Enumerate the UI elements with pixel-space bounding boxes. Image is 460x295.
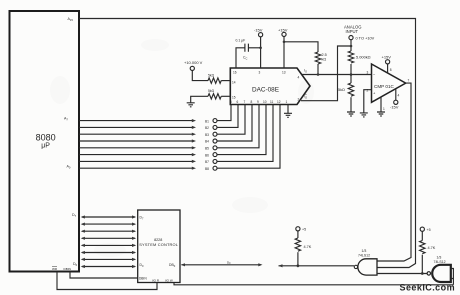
svg-text:WR: WR [52, 267, 58, 271]
svg-text:5.000kΩ: 5.000kΩ [356, 55, 371, 60]
svg-text:6: 6 [237, 100, 239, 104]
node B4 terminal and wire to DAC pin 8 [205, 105, 252, 144]
svg-text:4: 4 [398, 94, 400, 98]
svg-text:74LS12: 74LS12 [358, 254, 370, 258]
svg-text:1: 1 [286, 100, 288, 104]
svg-text:DBIN: DBIN [139, 277, 147, 281]
svg-text:+5: +5 [427, 228, 431, 232]
svg-text:5: 5 [230, 100, 232, 104]
svg-text:DAC-08E: DAC-08E [252, 86, 279, 93]
svg-text:B2: B2 [205, 126, 209, 130]
svg-text:7: 7 [244, 100, 246, 104]
pin label WR (8080 bottom) [52, 267, 58, 271]
svg-text:3: 3 [367, 71, 369, 75]
junction (cap node) [259, 47, 262, 50]
svg-text:8080: 8080 [36, 133, 56, 143]
microprocessor U1 8080 box [10, 11, 80, 272]
wire +5 to R7 [421, 231, 423, 240]
svg-text:2.5: 2.5 [322, 53, 327, 57]
comparator U3 CMP-01C [367, 64, 410, 111]
resistor R6 4.7K [295, 238, 312, 251]
svg-text:SYSTEM CONTROL: SYSTEM CONTROL [139, 242, 179, 247]
terminal -15V (comparator) [390, 100, 399, 109]
svg-text:74LS12: 74LS12 [434, 260, 446, 264]
svg-text:8: 8 [390, 68, 392, 72]
wire DB0 segment from 8228 with arrows [181, 261, 263, 267]
terminal +15V [278, 28, 288, 37]
svg-text:-15V: -15V [254, 28, 263, 33]
wire R3 to IO line [317, 64, 319, 75]
svg-text:2: 2 [367, 89, 369, 93]
ground (Vref-) [187, 103, 195, 107]
svg-text:B8: B8 [205, 167, 209, 171]
svg-text:CMP 01C: CMP 01C [374, 84, 395, 89]
wire D0 segment to NAND1 output [278, 264, 354, 267]
terminal +15V (comparator) [382, 55, 392, 64]
wire NAND1 input3 to NAND2 output [377, 273, 427, 275]
system controller U4 8228 box [138, 210, 180, 283]
svg-text:4.7K: 4.7K [304, 245, 312, 249]
svg-text:2: 2 [298, 98, 300, 102]
wire NAND2 inputs [451, 269, 454, 285]
svg-text:5kΩ: 5kΩ [338, 88, 345, 92]
resistor R3 2.5k [315, 52, 326, 64]
gate U6 NAND 1/3 74LS12 (mirrored, bold) [427, 256, 451, 283]
junction (R6 pullup node) [297, 264, 300, 267]
wire A15 from 8080 to NAND input [79, 19, 415, 268]
ground (DAC pin 1) [284, 113, 292, 117]
node B3 terminal and wire to DAC pin 7 [205, 105, 245, 137]
junction (+15V node) [283, 41, 286, 44]
wire R2 to DAC pin 15 [221, 95, 230, 97]
svg-text:4.7K: 4.7K [428, 246, 436, 250]
resistor R7 4.7K [420, 241, 436, 254]
wire pin 8 [387, 64, 389, 74]
svg-text:kΩ: kΩ [322, 58, 327, 62]
svg-text:7: 7 [408, 79, 410, 83]
wire IO from DAC pin 4 to comparator [302, 69, 372, 75]
wire DBIN from 8080 to 8228 [70, 272, 138, 278]
wire ground to R2 [191, 96, 208, 103]
svg-text:10: 10 [263, 100, 267, 104]
wire cap to DAC pin 16 [236, 48, 245, 68]
svg-text:I/O W: I/O W [165, 279, 173, 283]
svg-text:3: 3 [259, 71, 261, 75]
wire R1 to DAC pin 14 [221, 80, 230, 82]
wire comparator output to NAND input [377, 83, 411, 261]
ground (comparator pin 2) [360, 113, 368, 117]
wire I/OW from 8228 to NAND2 inputs [174, 283, 453, 285]
svg-text:B5: B5 [205, 147, 209, 151]
DAC pin 1 wire to ground [287, 105, 289, 114]
wire IO-bar from DAC pin 2 to analog node [301, 46, 351, 101]
junction (R3 / IO) [317, 73, 320, 76]
svg-text:B4: B4 [205, 140, 209, 144]
terminal +5 (left pullup) [296, 227, 306, 232]
svg-text:14: 14 [232, 81, 236, 85]
node B1 terminal and wire to DAC pin 5 [205, 105, 231, 123]
resistor R4 5.000k [348, 51, 370, 63]
terminal +10.000V [184, 60, 203, 71]
terminal -15V [254, 28, 263, 37]
svg-text:11: 11 [270, 100, 274, 104]
wire +15V to DAC pin 13 [283, 37, 285, 69]
ground (R5) [347, 112, 355, 116]
resistor R5 5k [338, 83, 354, 96]
label ANALOG INPUT [344, 25, 361, 35]
svg-text:DBIN: DBIN [64, 267, 71, 271]
svg-text:13: 13 [282, 71, 286, 75]
svg-text:+5: +5 [302, 228, 306, 232]
svg-text:+10.000 V: +10.000 V [184, 60, 203, 65]
data bus D7..D0 wires with double arrows [81, 215, 137, 268]
node B2 terminal and wire to DAC pin 6 [205, 105, 238, 130]
node B6 terminal and wire to DAC pin 10 [205, 105, 266, 157]
svg-text:-15V: -15V [390, 104, 399, 109]
svg-text:1/3: 1/3 [437, 256, 442, 260]
wire +5 to R6 [297, 231, 299, 238]
svg-text:SeekIC.com: SeekIC.com [400, 282, 456, 292]
svg-text:0 TO +10V: 0 TO +10V [356, 35, 375, 40]
DAC U2 DAC-08E body [230, 68, 310, 105]
svg-text:9: 9 [257, 100, 259, 104]
wire IO node to R5 [350, 75, 352, 84]
ground (comparator pin 1) [377, 112, 385, 116]
wire comparator pin 2 to ground [364, 90, 372, 113]
terminal +5 (right pullup) [420, 227, 430, 232]
svg-text:12: 12 [277, 100, 281, 104]
address bus wires A7..A0 to B1..B8 with arrows [79, 119, 196, 170]
wire pin 4 [395, 89, 397, 100]
svg-text:+15V: +15V [382, 55, 392, 60]
svg-text:B1: B1 [205, 119, 209, 123]
terminal analog input [349, 35, 375, 40]
svg-text:B3: B3 [205, 133, 209, 137]
junction (R4 / IO) [350, 73, 353, 76]
node B7 terminal and wire to DAC pin 11 [205, 105, 273, 164]
svg-text:1/3: 1/3 [362, 249, 367, 253]
svg-text:B6: B6 [205, 153, 209, 157]
wire +15V node to R3 [284, 42, 318, 52]
svg-text:1: 1 [383, 107, 385, 111]
gate U5 NAND 1/3 74LS12 (mirrored) [354, 249, 377, 275]
capacitor CC 0.1uF [236, 39, 261, 61]
svg-text:8: 8 [251, 100, 253, 104]
svg-text:B7: B7 [205, 160, 209, 164]
resistor R2 5k (Vref-) [208, 89, 221, 99]
wire R4 to IO line [350, 64, 352, 75]
junction (R7 pullup node) [421, 272, 424, 275]
wire analog input to R4 [350, 40, 352, 51]
svg-text:INPUT: INPUT [346, 29, 359, 34]
svg-text:16: 16 [233, 71, 237, 75]
svg-text:I/O R: I/O R [152, 279, 160, 283]
wire R6 to D0 line [297, 252, 299, 266]
wire R5 to ground [350, 97, 352, 112]
resistor R1 5k (Vref+) [208, 74, 221, 84]
wire WR from 8080 to 8228 bottom [57, 272, 157, 290]
svg-text:+15V: +15V [278, 28, 288, 33]
wire from +10.000V to R1 [192, 71, 208, 81]
wire R7 to NAND line [421, 255, 423, 274]
svg-text:0.1 μF: 0.1 μF [236, 39, 246, 43]
svg-text:15: 15 [232, 96, 236, 100]
svg-text:4: 4 [298, 76, 300, 80]
junction (analog node) [350, 45, 353, 48]
wire comparator pin 1 to ground [380, 97, 382, 112]
node B8 terminal and wire to DAC pin 12 [205, 105, 280, 171]
wire -15V to DAC pin 3 [260, 37, 262, 68]
svg-text:μP: μP [41, 142, 50, 149]
node B5 terminal and wire to DAC pin 9 [205, 105, 259, 151]
